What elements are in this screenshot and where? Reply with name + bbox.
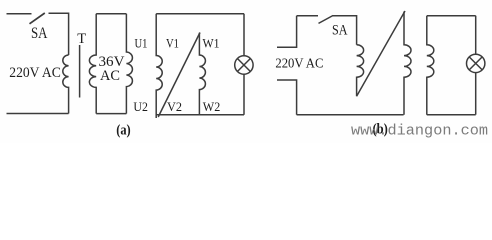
winding U1-U2 + loop2 right side [126, 14, 132, 114]
svg-text:V2: V2 [167, 100, 182, 114]
circuit (b) source stub top [277, 16, 297, 48]
svg-text:AC: AC [100, 68, 120, 84]
winding W1-W2 branch [199, 33, 205, 115]
lamp loop right side upper wire (b) [475, 16, 477, 55]
svg-text:SA: SA [31, 25, 48, 42]
svg-text:SA: SA [332, 23, 348, 39]
slider diagonal (a) from V2 end to W1 top [158, 33, 200, 118]
lamp EL (b) [467, 54, 485, 72]
loop3 right side lower wire [243, 74, 245, 115]
wire top loop3 (a) [156, 13, 244, 15]
svg-text:220V AC: 220V AC [275, 56, 323, 71]
svg-text:V1: V1 [166, 36, 179, 50]
wire bottom loop2 (a) [96, 113, 126, 115]
switch SA blade (b) [319, 16, 334, 24]
wire top lamp loop (b) [427, 15, 476, 17]
wire bottom loop3 (a) [156, 114, 244, 116]
transformer T core [79, 45, 81, 98]
svg-text:www.diangon.com: www.diangon.com [351, 123, 488, 140]
wire top loop1 right segment (a) [49, 13, 69, 55]
winding V1-V2 + loop3 left side [156, 14, 162, 118]
svg-text:W2: W2 [203, 100, 221, 114]
svg-text:220V AC: 220V AC [9, 65, 61, 81]
svg-text:W1: W1 [203, 36, 220, 50]
switch SA blade (a) [30, 13, 45, 24]
transformer T primary winding [63, 55, 69, 114]
svg-text:U2: U2 [133, 100, 148, 114]
autotransformer tapped winding (b) [404, 12, 411, 115]
wire bottom lamp loop (b) [427, 114, 476, 116]
lamp loop right side lower wire (b) [475, 73, 477, 115]
transformer T secondary winding + loop2 left side [89, 14, 96, 114]
svg-text:U1: U1 [135, 36, 148, 50]
wire top (b) left segment [297, 15, 318, 17]
wire bottom loop1 (a) [7, 113, 69, 115]
slider diagonal (b) [357, 11, 405, 96]
loop3 right side upper wire [243, 14, 245, 56]
secondary winding + lamp loop left side (b) [427, 16, 434, 115]
wire top (b) right segment [333, 16, 357, 45]
svg-text:(a): (a) [116, 122, 131, 138]
wire top loop1 left segment (a) [7, 13, 32, 15]
circuit (b) source stub bottom [277, 80, 297, 115]
autotransformer winding (b) primary [357, 45, 364, 96]
wire top loop2 (a) [96, 13, 126, 15]
lamp EL (a) [235, 56, 253, 74]
svg-text:T: T [77, 31, 86, 47]
wire bottom (b) [297, 114, 404, 116]
